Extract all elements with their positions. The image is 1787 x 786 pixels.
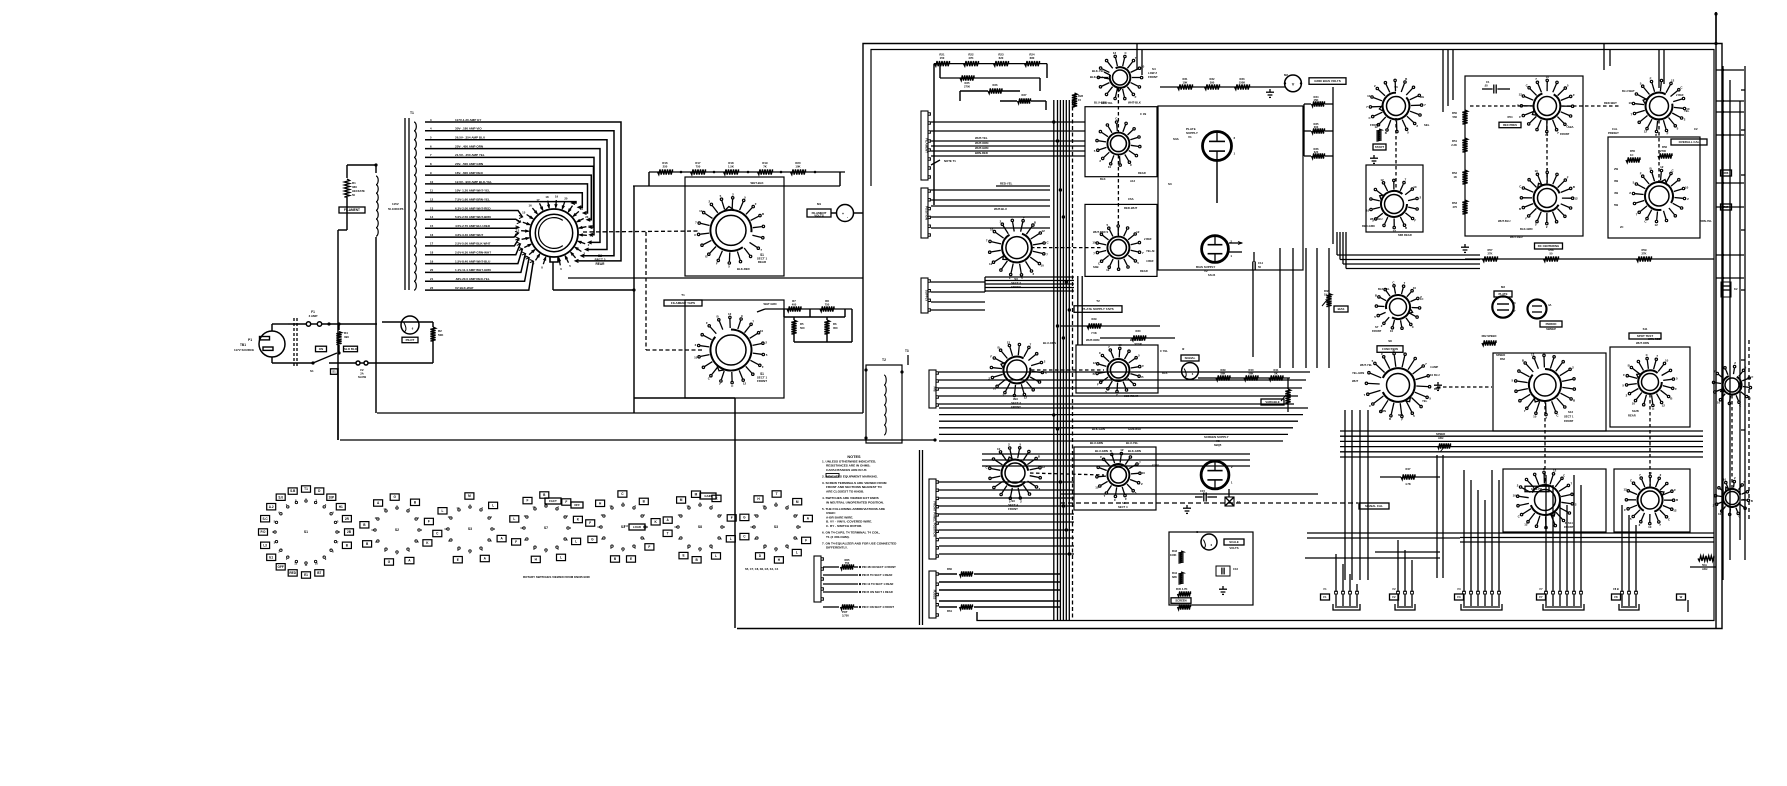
svg-text:L: L [730, 537, 732, 541]
svg-text:56K: 56K [1221, 371, 1226, 375]
svg-text:R56: R56 [1662, 145, 1667, 149]
svg-text:390: 390 [1210, 80, 1215, 84]
svg-text:R61: R61 [947, 609, 952, 613]
svg-text:SECT 1: SECT 1 [1564, 415, 1574, 419]
svg-text:S1: S1 [310, 369, 314, 373]
fuse F1 [288, 323, 306, 325]
svg-text:10: 10 [597, 525, 601, 529]
svg-text:12: 12 [430, 197, 434, 201]
svg-text:2.0V-6.30 AMP GRN-WHT: 2.0V-6.30 AMP GRN-WHT [455, 251, 491, 255]
svg-text:R38: R38 [1324, 289, 1329, 293]
svg-text:620: 620 [1314, 150, 1319, 154]
wire bus [931, 189, 1050, 191]
svg-text:M1: M1 [817, 202, 821, 206]
svg-text:BRN-YEL: BRN-YEL [1700, 219, 1712, 223]
svg-text:15: 15 [1078, 98, 1082, 102]
svg-text:360: 360 [352, 185, 357, 189]
svg-text:12: 12 [989, 262, 993, 266]
svg-text:VOLTS: VOLTS [1229, 546, 1238, 550]
dashed gang [1395, 118, 1397, 190]
svg-text:GRN-YEL: GRN-YEL [1531, 487, 1544, 491]
svg-text:IN NEUTRAL UNOPERATED POSITION: IN NEUTRAL UNOPERATED POSITION. [826, 500, 884, 504]
svg-text:YEL: YEL [1422, 399, 1428, 403]
svg-text:1.1V-11.4 AMP WHT-GRN: 1.1V-11.4 AMP WHT-GRN [455, 268, 491, 272]
svg-text:S.0: S.0 [278, 495, 283, 499]
svg-text:S7: S7 [1375, 325, 1379, 329]
wire [985, 276, 1074, 278]
svg-text:GRN: GRN [1380, 409, 1386, 413]
label GRID BIAS VOLTS [1309, 78, 1346, 85]
svg-text:PILOT: PILOT [406, 338, 415, 342]
svg-text:F: F [1142, 364, 1144, 368]
svg-text:R26: R26 [993, 83, 998, 87]
svg-text:560: 560 [1452, 115, 1457, 119]
svg-text:FRONT: FRONT [1011, 405, 1021, 409]
rotary switch S3A rear [1094, 117, 1141, 169]
svg-text:BLU-GRN: BLU-GRN [1095, 449, 1108, 453]
resistors R31-R33 [1178, 84, 1193, 89]
resistor R45 [1178, 591, 1191, 596]
svg-text:B: B [1093, 372, 1095, 376]
rotary switch S8 function [1364, 348, 1434, 421]
svg-text:12: 12 [1660, 165, 1664, 169]
svg-text:12: 12 [1655, 223, 1659, 227]
svg-text:SIGNAL: SIGNAL [1185, 356, 1196, 360]
svg-text:12: 12 [1519, 93, 1523, 97]
svg-text:R67: R67 [1724, 205, 1729, 209]
svg-text:WHT-BLU: WHT-BLU [1498, 219, 1511, 223]
connector F2 [1395, 591, 1415, 610]
resistor R43 [1178, 551, 1183, 563]
connector W [1677, 594, 1686, 600]
svg-text:10K: 10K [1183, 80, 1188, 84]
svg-text:F: F [805, 539, 807, 543]
svg-text:BLK-BLU: BLK-BLU [1090, 75, 1103, 79]
svg-text:WHT-BLK: WHT-BLK [751, 181, 764, 185]
svg-text:FACT: FACT [549, 499, 557, 503]
box S3D [1076, 345, 1158, 393]
svg-text:250: 250 [663, 165, 668, 169]
dashed gang line [583, 231, 700, 232]
rotary switch S3 front [986, 215, 1050, 280]
capacitor C15 [1204, 493, 1206, 502]
svg-text:R44: R44 [1172, 571, 1177, 575]
svg-text:50K: 50K [438, 333, 444, 337]
svg-text:12: 12 [1644, 130, 1648, 134]
svg-text:117V SOURCE: 117V SOURCE [234, 348, 254, 352]
svg-text:2C: 2C [1620, 225, 1624, 229]
capacitor C14 [1253, 252, 1255, 262]
svg-text:S7: S7 [544, 526, 548, 530]
svg-text:B: B [762, 212, 764, 216]
svg-text:E1: E1 [304, 573, 308, 577]
svg-text:E: E [682, 554, 684, 558]
wire [757, 309, 765, 312]
svg-text:F: F [1675, 387, 1677, 391]
svg-text:E1: E1 [269, 555, 273, 559]
svg-text:23: 23 [585, 215, 589, 219]
svg-text:13: 13 [516, 229, 520, 233]
svg-text:P1: P1 [248, 338, 252, 342]
svg-text:F2: F2 [1392, 595, 1396, 599]
svg-text:R5: R5 [800, 322, 804, 326]
rotary switch S9A [1517, 75, 1575, 137]
svg-text:F: F [706, 321, 708, 325]
rotary switch S14A [1513, 467, 1577, 529]
svg-text:10: 10 [1390, 329, 1394, 333]
wire bus fuses [939, 573, 957, 575]
svg-text:R59: R59 [1642, 248, 1647, 252]
svg-text:M2: M2 [1284, 73, 1288, 77]
svg-text:CAPACITANCES ARE IN UF.: CAPACITANCES ARE IN UF. [826, 468, 867, 472]
svg-text:F: F [1401, 418, 1403, 422]
svg-text:S.B: S.B [290, 489, 296, 493]
svg-text:12: 12 [1393, 229, 1397, 233]
chassis dashed barrier [293, 318, 295, 368]
svg-text:10: 10 [1628, 101, 1632, 105]
dashed gang [1437, 386, 1492, 388]
svg-text:16: 16 [529, 204, 533, 208]
transformer T2 [866, 365, 902, 443]
ground [1183, 505, 1191, 513]
svg-text:2. INDICATES EQUIPMENT: 2. INDICATES EQUIPMENT MARKING. [822, 474, 878, 478]
dashed bus [1072, 100, 1074, 620]
terminal strip TB7 [929, 571, 938, 618]
tube V3 screen supply [1201, 461, 1233, 489]
svg-text:7.5V-1.60 AMP BRN-YEL: 7.5V-1.60 AMP BRN-YEL [455, 197, 490, 201]
svg-text:10: 10 [1533, 414, 1537, 418]
svg-text:W: W [1680, 595, 1683, 599]
svg-text:2W: 2W [1614, 167, 1619, 171]
svg-text:K2: K2 [1734, 287, 1738, 291]
svg-text:FRONT: FRONT [1372, 329, 1382, 333]
svg-text:PIN 4B ON SECT 4 FRONT: PIN 4B ON SECT 4 FRONT [862, 565, 896, 569]
wire bundle vertical [1279, 248, 1281, 368]
dashed gang [1544, 400, 1546, 485]
wire risers [1335, 554, 1337, 592]
svg-text:10: 10 [694, 356, 698, 360]
ground [1266, 89, 1274, 97]
svg-text:750: 750 [696, 165, 701, 169]
wire [634, 397, 735, 399]
svg-text:10: 10 [1513, 494, 1517, 498]
resistor R63 [1698, 556, 1714, 561]
wire bundle to S2 [425, 122, 621, 261]
svg-text:50A: 50A [1702, 563, 1707, 567]
resistors R57-R59 [1465, 258, 1714, 260]
svg-text:B: B [1375, 293, 1377, 297]
svg-text:10: 10 [1546, 75, 1550, 79]
resistor R56 [1658, 153, 1672, 158]
svg-text:WHT: WHT [1352, 379, 1359, 383]
svg-text:B: B [1655, 133, 1657, 137]
svg-text:S8: S8 [698, 525, 702, 529]
svg-text:12: 12 [1380, 178, 1384, 182]
wire [271, 324, 273, 331]
svg-text:1.5V-8.40 AMP WHT-BLU: 1.5V-8.40 AMP WHT-BLU [455, 259, 491, 263]
svg-text:3,750: 3,750 [842, 614, 849, 618]
right margin feeder [1744, 66, 1746, 560]
svg-text:10: 10 [444, 527, 448, 531]
capacitor C16 [1216, 566, 1230, 576]
svg-text:L: L [513, 517, 515, 521]
dashed control line [1060, 502, 1358, 504]
label SLO BLO [344, 346, 358, 352]
resistor R44 [1178, 572, 1183, 584]
svg-text:WHT-BLU: WHT-BLU [1370, 217, 1383, 221]
svg-text:PIN B TO SECT 1 REAR: PIN B TO SECT 1 REAR [862, 573, 892, 577]
svg-text:RED-WHT: RED-WHT [1604, 101, 1617, 105]
terminal strip TB6 [929, 479, 938, 559]
svg-text:T3: T3 [905, 349, 909, 353]
svg-text:T: T [776, 492, 778, 496]
svg-text:S3: S3 [468, 527, 472, 531]
svg-text:BLU-YEL: BLU-YEL [1126, 441, 1138, 445]
svg-text:C YEL: C YEL [1160, 349, 1168, 353]
connector F8 B [1619, 591, 1639, 610]
svg-text:BLU-GRN: BLU-GRN [1094, 101, 1107, 105]
svg-text:SPEED: SPEED [1436, 432, 1445, 436]
svg-text:10: 10 [1040, 264, 1044, 268]
svg-text:PIN 10 TO SECT 1 REAR: PIN 10 TO SECT 1 REAR [862, 582, 893, 586]
svg-text:12: 12 [1106, 268, 1110, 272]
svg-text:47K: 47K [968, 56, 973, 60]
svg-text:BLK-GRN: BLK-GRN [1128, 449, 1141, 453]
svg-text:L: L [796, 551, 798, 555]
svg-text:10: 10 [1141, 65, 1145, 69]
svg-text:2.5V-5.00 AMP BLK-WHT: 2.5V-5.00 AMP BLK-WHT [455, 242, 491, 246]
svg-text:R45 4.7K: R45 4.7K [1176, 587, 1187, 591]
svg-text:FRONT: FRONT [1560, 132, 1570, 136]
svg-text:F: F [1414, 219, 1416, 223]
svg-text:F: F [1650, 76, 1652, 80]
svg-text:2B: 2B [347, 530, 352, 534]
svg-text:F: F [1117, 221, 1119, 225]
resistor network R5-R8 [765, 308, 852, 310]
svg-text:F: F [716, 262, 718, 266]
dashed gang [1031, 369, 1104, 371]
svg-text:2R: 2R [345, 517, 350, 521]
resistors R39-R41 [1198, 377, 1290, 379]
svg-text:F: F [762, 365, 764, 369]
svg-text:680: 680 [1030, 56, 1035, 60]
resistor row R21-R24 [934, 63, 1047, 65]
svg-text:620: 620 [999, 56, 1004, 60]
svg-text:BLU: BLU [1434, 373, 1440, 377]
label OVERALL CAL [1671, 139, 1707, 145]
svg-text:REAR: REAR [596, 262, 606, 266]
frame left lower [919, 450, 921, 625]
svg-text:BLK-GRN: BLK-GRN [1092, 427, 1105, 431]
svg-text:ON: ON [319, 347, 323, 351]
dashed gang [1117, 155, 1119, 236]
svg-text:F8 B: F8 B [1613, 587, 1619, 591]
svg-text:12: 12 [1574, 196, 1578, 200]
svg-text:B: B [1522, 359, 1524, 363]
svg-text:10: 10 [1430, 373, 1434, 377]
svg-text:27K: 27K [1488, 251, 1493, 255]
svg-text:12: 12 [1113, 51, 1117, 55]
svg-text:19: 19 [555, 195, 559, 199]
svg-text:FRONT: FRONT [1008, 507, 1018, 511]
wire [337, 368, 339, 440]
wire pair [1436, 455, 1438, 578]
resistor R1 [346, 170, 348, 178]
resistor R25 [940, 77, 1040, 79]
power plug P1 [259, 331, 285, 357]
svg-text:SCREEN: SCREEN [1175, 598, 1186, 602]
svg-text:GRN-WHT: GRN-WHT [1128, 427, 1142, 431]
svg-text:PIN B ON SECT 1 REAR: PIN B ON SECT 1 REAR [862, 590, 893, 594]
box S3B [1085, 204, 1157, 276]
svg-text:B: B [1676, 498, 1678, 502]
svg-text:BLU-GRN: BLU-GRN [1090, 441, 1103, 445]
wire [839, 172, 841, 186]
wire bundle to S2 left [425, 211, 523, 218]
svg-text:10: 10 [990, 228, 994, 232]
svg-text:12: 12 [1531, 352, 1535, 356]
svg-text:RED-GRN: RED-GRN [1362, 224, 1375, 228]
svg-text:C2: C2 [1694, 127, 1698, 131]
resistor R55 [1626, 157, 1640, 162]
svg-text:11: 11 [678, 513, 681, 517]
svg-text:10: 10 [750, 525, 754, 529]
svg-text:S8: S8 [1388, 339, 1392, 343]
svg-text:F: F [990, 354, 992, 358]
svg-text:15: 15 [522, 211, 526, 215]
svg-text:BLK-RED: BLK-RED [737, 267, 750, 271]
dashed gang [1031, 247, 1103, 249]
svg-text:F: F [1100, 455, 1102, 459]
svg-text:11: 11 [375, 516, 378, 520]
power switch S1 [338, 345, 340, 352]
svg-text:.63V-20.0 AMP RED-YEL: .63V-20.0 AMP RED-YEL [455, 277, 490, 281]
svg-text:B: B [1038, 455, 1040, 459]
svg-text:11: 11 [305, 563, 308, 567]
resistor R67 [1721, 204, 1732, 210]
svg-text:750: 750 [825, 302, 830, 306]
dashed line [1470, 105, 1533, 107]
svg-text:10: 10 [1142, 471, 1146, 475]
wire bus plate [939, 371, 1310, 373]
chassis frame outer [737, 44, 1722, 629]
rotary switch S1 sect 1 rear [694, 192, 764, 268]
svg-text:19: 19 [430, 259, 434, 263]
ground [1219, 586, 1227, 594]
wire corner feeders [1442, 49, 1444, 112]
svg-text:16V- .600 AMP RED: 16V- .600 AMP RED [455, 171, 484, 175]
rotary switch S3D rear [1093, 343, 1145, 397]
svg-text:26.5V- .354 AMP BLU: 26.5V- .354 AMP BLU [455, 136, 486, 140]
svg-text:1.5K: 1.5K [728, 165, 734, 169]
svg-text:B: B [1405, 226, 1407, 230]
svg-text:C 1N: C 1N [1140, 112, 1146, 116]
resistor chain R16-R20 [649, 171, 845, 173]
svg-text:F: F [1135, 95, 1137, 99]
svg-text:NOTE T1: NOTE T1 [944, 159, 956, 163]
svg-text:10: 10 [1632, 401, 1636, 405]
svg-text:F: F [1667, 132, 1669, 136]
wire [976, 612, 978, 621]
svg-text:OFF: OFF [278, 565, 284, 569]
svg-text:F: F [1525, 216, 1527, 220]
svg-text:2700: 2700 [964, 85, 971, 89]
svg-text:10P: 10P [328, 495, 334, 499]
wire [271, 357, 273, 363]
rotary switch S6 front [1366, 77, 1426, 135]
svg-text:50-1600CPS: 50-1600CPS [388, 207, 404, 211]
svg-text:DC CENTERING: DC CENTERING [1538, 244, 1560, 248]
svg-text:B: B [1751, 499, 1753, 503]
resistor R66 [1721, 170, 1732, 176]
svg-text:100K: 100K [1170, 553, 1177, 557]
svg-text:25V- .450 AMP ORN: 25V- .450 AMP ORN [455, 144, 483, 148]
rotary switch S13B [1713, 476, 1753, 518]
svg-text:R50: R50 [1452, 111, 1457, 115]
svg-text:470: 470 [1452, 205, 1457, 209]
svg-text:4.5V-2.70 AMP BLU-RED: 4.5V-2.70 AMP BLU-RED [455, 224, 491, 228]
svg-text:GRID BIAS VOLTS: GRID BIAS VOLTS [1314, 79, 1341, 83]
svg-text:F: F [565, 500, 567, 504]
svg-text:12: 12 [1662, 404, 1666, 408]
svg-text:B7: B7 [317, 571, 321, 575]
svg-text:M: M [468, 494, 471, 498]
wire bundle [1337, 254, 1480, 256]
svg-text:R66: R66 [1724, 171, 1729, 175]
label FACT [545, 498, 561, 504]
wire bus [1460, 532, 1714, 534]
svg-text:F: F [1573, 93, 1575, 97]
svg-text:11: 11 [754, 513, 757, 517]
svg-text:VOLTS: VOLTS [814, 213, 824, 217]
svg-text:F: F [1519, 115, 1521, 119]
wire [382, 321, 433, 323]
dashed gang vertical [645, 232, 647, 350]
rotary switch S13A [1712, 361, 1753, 407]
svg-text:T1: T1 [410, 111, 414, 115]
svg-text:4 REF: 4 REF [1146, 259, 1154, 263]
dashed gang [1658, 120, 1660, 182]
tube V4 [1492, 296, 1513, 317]
svg-text:L3: L3 [263, 543, 267, 547]
svg-text:YEL: YEL [1684, 109, 1690, 113]
relay K1 [1225, 497, 1234, 506]
svg-text:E: E [630, 557, 632, 561]
svg-text:BLU-WHT: BLU-WHT [1622, 89, 1635, 93]
svg-text:10: 10 [1648, 525, 1652, 529]
svg-text:12: 12 [1093, 361, 1097, 365]
svg-text:50: 50 [1258, 265, 1262, 269]
wire [831, 212, 837, 214]
svg-text:WHT-ORN: WHT-ORN [1636, 341, 1649, 345]
svg-text:12: 12 [383, 507, 387, 511]
svg-text:4 AMP: 4 AMP [1430, 365, 1438, 369]
box S14A [1503, 469, 1606, 532]
label PERIOD [1540, 321, 1562, 327]
box plate/bias supply [1158, 106, 1303, 270]
svg-text:7K: 7K [763, 165, 767, 169]
vertical feeder [1715, 12, 1717, 628]
bus junction dots [1052, 120, 1055, 123]
tube V2 bias supply [1202, 236, 1233, 263]
svg-text:T1: T1 [681, 293, 685, 297]
svg-text:10: 10 [371, 528, 375, 532]
svg-text:REAR: REAR [1140, 269, 1148, 273]
svg-text:17: 17 [536, 198, 540, 202]
svg-text:STOP: STOP [1134, 342, 1142, 346]
right edge bus K [1722, 66, 1724, 580]
svg-text:F8: F8 [1614, 595, 1618, 599]
